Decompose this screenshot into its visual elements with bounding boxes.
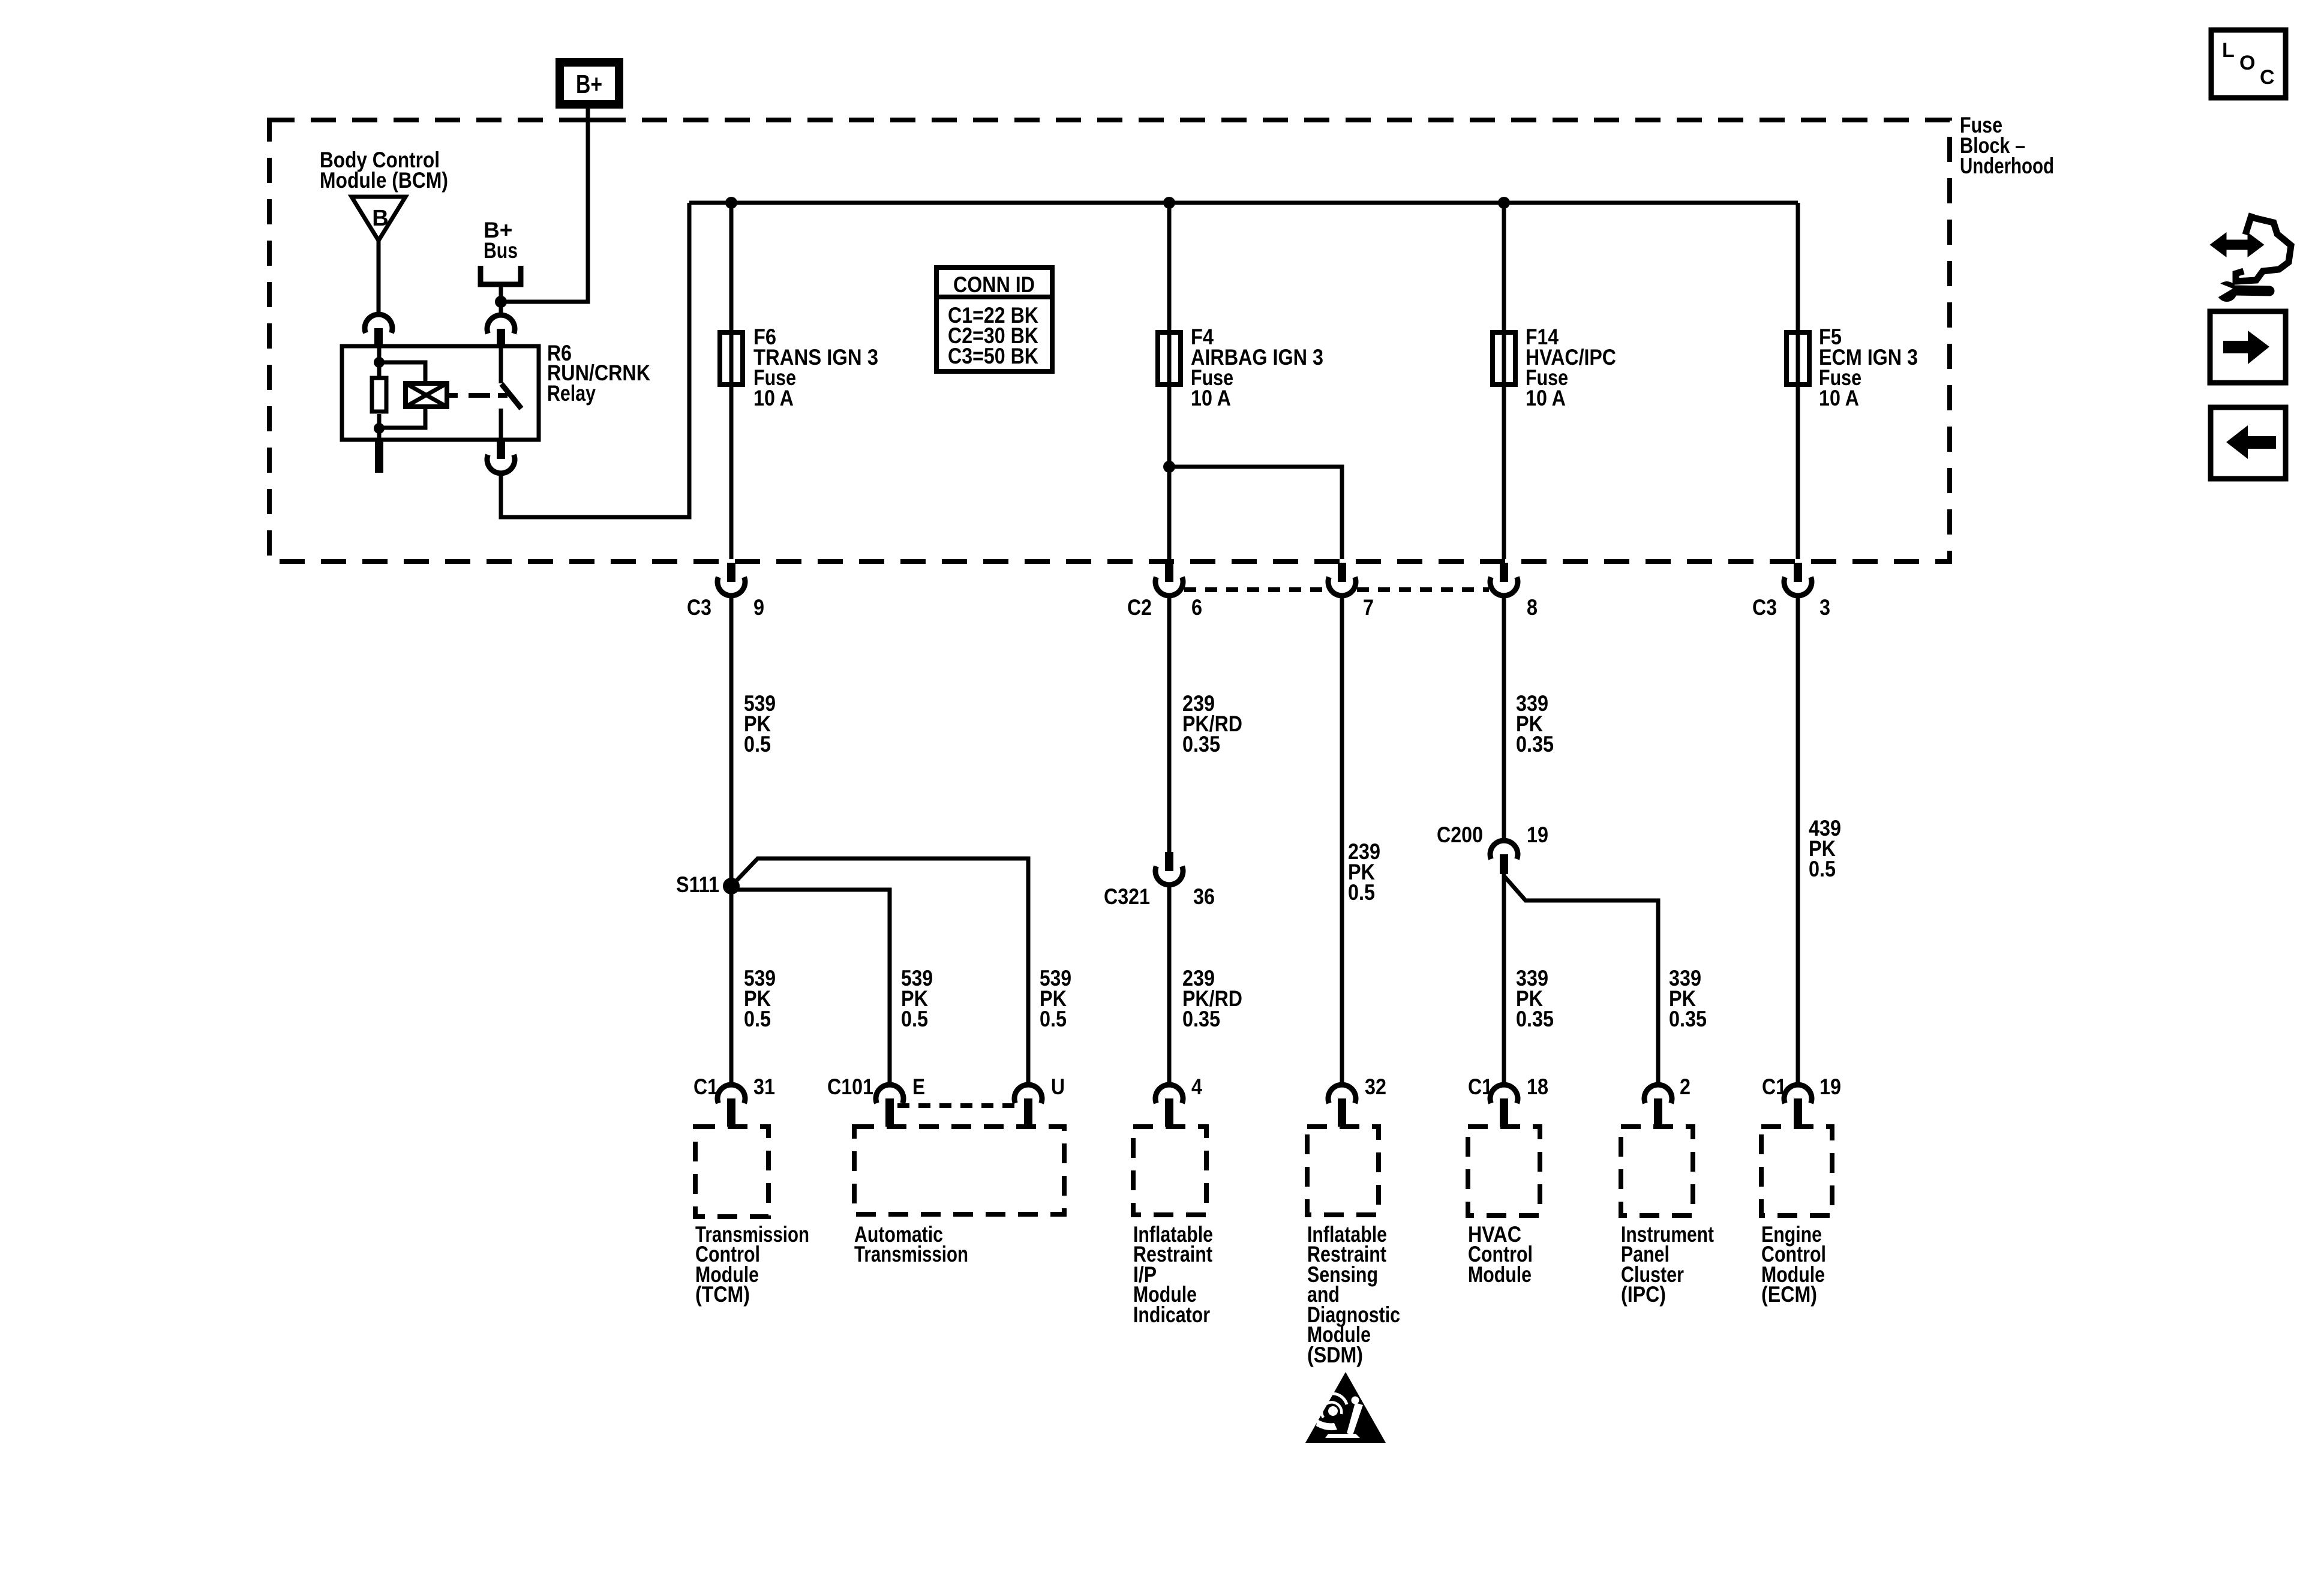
- junction dot B+ bus: [495, 296, 507, 308]
- fuse block exit pin 7: [1338, 563, 1346, 582]
- connector cup 8: [1490, 577, 1518, 596]
- wire BCM triangle to relay coil connector: [377, 241, 381, 314]
- solenoid coil loop wire: [379, 362, 425, 385]
- pin into relay (coil): [374, 328, 383, 347]
- wire bus to fuse F4: [1167, 203, 1172, 559]
- svg-text:C1: C1: [1468, 1074, 1493, 1099]
- svg-text:9: 9: [753, 595, 764, 620]
- svg-text:19: 19: [1819, 1074, 1841, 1099]
- wire C321 to pin 4: [1167, 885, 1172, 1084]
- svg-text:B+: B+: [576, 70, 602, 99]
- module box Automatic Transmission: [854, 1127, 1064, 1214]
- svg-text:10 A: 10 A: [1526, 386, 1566, 410]
- svg-text:C321: C321: [1104, 884, 1150, 909]
- stub bracket to junction: [499, 284, 503, 302]
- double arrow: [2211, 234, 2269, 302]
- SDM airbag warning triangle: [1305, 1372, 1386, 1443]
- fuse block exit pin 8: [1500, 563, 1508, 582]
- wire 439 PK to ECM: [1796, 596, 1800, 1084]
- ignition 3 bus wire: [689, 201, 1798, 205]
- dashed actuation link: [447, 393, 458, 398]
- wire bus to fuse F6: [729, 203, 734, 559]
- svg-text:7: 7: [1363, 595, 1374, 620]
- svg-text:U: U: [1051, 1074, 1065, 1099]
- svg-text:C2: C2: [1127, 595, 1152, 620]
- svg-text:Relay: Relay: [547, 381, 596, 406]
- connector cap U: [1014, 1085, 1042, 1103]
- svg-text:8: 8: [1527, 595, 1538, 620]
- wire 339 PK upper: [1502, 596, 1506, 840]
- wire junction down to switch connector: [499, 302, 503, 314]
- resistor element: [372, 378, 386, 412]
- splice S111: [723, 878, 740, 894]
- svg-text:C3: C3: [687, 595, 711, 620]
- svg-text:B: B: [372, 206, 388, 231]
- module box HVAC: [1468, 1127, 1540, 1215]
- fuse F14: [1493, 332, 1515, 385]
- svg-text:O: O: [2239, 52, 2255, 74]
- svg-text:0.5: 0.5: [744, 732, 771, 757]
- solenoid box with X: [406, 383, 447, 407]
- module box TCM: [695, 1127, 768, 1217]
- wire bus to fuse F5: [1796, 203, 1800, 559]
- connector cap C101 E: [876, 1085, 903, 1103]
- B+ Bus bracket symbol: [481, 266, 521, 284]
- svg-text:E: E: [912, 1074, 925, 1099]
- module box SDM: [1307, 1127, 1379, 1215]
- svg-text:2: 2: [1680, 1074, 1691, 1099]
- BCM triangle symbol B: [352, 197, 406, 241]
- svg-text:10 A: 10 A: [753, 386, 794, 410]
- svg-text:C3=50 BK: C3=50 BK: [948, 344, 1038, 368]
- connector cup 7: [1328, 577, 1356, 596]
- dotted connector tie line 6-7-8: [1184, 587, 1327, 592]
- svg-text:0.35: 0.35: [1516, 1007, 1554, 1031]
- svg-text:Module: Module: [1468, 1262, 1532, 1287]
- wire C200 branch to IPC: [1504, 876, 1658, 1084]
- svg-text:0.5: 0.5: [1348, 880, 1375, 905]
- svg-text:36: 36: [1193, 884, 1215, 909]
- dotted tie line E-U: [897, 1103, 1020, 1108]
- previous page arrow box: [2211, 407, 2286, 479]
- svg-text:S111: S111: [676, 872, 719, 897]
- wrench: [2217, 281, 2237, 302]
- connector half circle (coil input): [365, 314, 392, 333]
- svg-text:0.35: 0.35: [1516, 732, 1554, 757]
- svg-text:6: 6: [1191, 595, 1202, 620]
- connector cup C2 6: [1155, 577, 1183, 596]
- B+ power symbol box: [556, 58, 623, 109]
- svg-text:(ECM): (ECM): [1761, 1282, 1817, 1307]
- svg-text:0.5: 0.5: [1040, 1007, 1067, 1031]
- junction dot bus F4: [1163, 197, 1175, 209]
- fuse F6: [720, 332, 743, 385]
- svg-text:(SDM): (SDM): [1307, 1343, 1363, 1367]
- relay coil output pin (stub): [375, 440, 383, 473]
- junction dot coil bottom: [374, 423, 385, 434]
- svg-text:(IPC): (IPC): [1621, 1282, 1666, 1307]
- wire from B+ box down to B+ Bus junction: [501, 109, 588, 302]
- relay R6 box: [342, 346, 539, 440]
- connector half circle (relay output): [487, 455, 515, 473]
- svg-text:Bus: Bus: [484, 238, 518, 263]
- relay switch output pin: [497, 440, 505, 459]
- fuse F4: [1158, 332, 1181, 385]
- svg-text:0.5: 0.5: [901, 1007, 928, 1031]
- wire S111 branch to E pin: [731, 890, 890, 1084]
- svg-text:0.35: 0.35: [1182, 732, 1220, 757]
- connector half circle (switch input): [487, 315, 515, 334]
- connector cap C1 31 (TCM): [717, 1085, 745, 1103]
- fuse block exit pin C3 9: [727, 563, 735, 582]
- module box Inflatable Restraint I/P: [1133, 1127, 1206, 1215]
- svg-text:18: 18: [1527, 1074, 1548, 1099]
- Fuse Block - Underhood dashed boundary box: [269, 120, 1950, 562]
- next page arrow box: [2210, 311, 2286, 383]
- connector C200 cap: [1490, 840, 1518, 859]
- relay switch: [499, 347, 503, 383]
- CONN ID table: [936, 268, 1052, 371]
- svg-text:Transmission: Transmission: [854, 1242, 968, 1266]
- svg-text:10 A: 10 A: [1191, 386, 1231, 410]
- pin into relay (switch): [497, 329, 505, 347]
- svg-text:C101: C101: [827, 1074, 873, 1099]
- LOC reference box: [2211, 30, 2286, 98]
- connector cap 2 (IPC): [1644, 1085, 1672, 1103]
- module box ECM: [1761, 1127, 1832, 1215]
- wire 539 PK to S111 and TCM: [729, 596, 734, 1084]
- connector cup C3 9: [717, 577, 745, 596]
- connector cap 32: [1328, 1085, 1356, 1103]
- svg-text:0.5: 0.5: [1809, 857, 1836, 881]
- svg-text:0.35: 0.35: [1669, 1007, 1707, 1031]
- wire S111 branch to U pin: [731, 858, 1028, 1084]
- connector cap C1 19 (ECM): [1784, 1085, 1812, 1103]
- svg-text:31: 31: [753, 1074, 775, 1099]
- svg-text:19: 19: [1527, 822, 1548, 847]
- wire C200 to HVAC: [1502, 874, 1506, 1084]
- junction dot bus F14: [1498, 197, 1510, 209]
- wire F4 branch to pin 7: [1169, 467, 1342, 559]
- svg-text:C3: C3: [1752, 595, 1777, 620]
- svg-text:C1: C1: [693, 1074, 718, 1099]
- module box IPC: [1621, 1127, 1693, 1215]
- svg-text:L: L: [2222, 39, 2235, 62]
- connector cap C1 18 (HVAC): [1490, 1085, 1518, 1103]
- connector C200 pin: [1500, 854, 1508, 874]
- connector cap 4: [1155, 1085, 1183, 1103]
- junction dot F4 branch: [1163, 461, 1175, 473]
- svg-text:0.5: 0.5: [744, 1007, 771, 1031]
- fuse block exit pin C2 6: [1165, 563, 1173, 582]
- wire 239 PK/RD upper: [1167, 596, 1172, 852]
- wire relay output to ignition bus: [501, 203, 689, 517]
- fuse block border dash at B+ wire crossing: [573, 118, 604, 122]
- svg-text:3: 3: [1819, 595, 1830, 620]
- connector C321 pin: [1165, 852, 1173, 871]
- fuse block exit pin C3 3: [1794, 563, 1802, 582]
- wire bus to fuse F14: [1502, 203, 1506, 559]
- svg-text:C200: C200: [1437, 822, 1483, 847]
- junction dot bus F6: [725, 197, 737, 209]
- svg-text:10 A: 10 A: [1819, 386, 1859, 410]
- svg-text:CONN ID: CONN ID: [953, 272, 1035, 297]
- svg-text:0.35: 0.35: [1182, 1007, 1220, 1031]
- connector cup C3 3: [1784, 577, 1812, 596]
- svg-text:Indicator: Indicator: [1133, 1302, 1210, 1327]
- svg-text:C1: C1: [1762, 1074, 1786, 1099]
- relay coil circuit: [377, 346, 382, 378]
- svg-text:C: C: [2260, 66, 2275, 89]
- junction dot coil top: [374, 357, 385, 368]
- svg-text:Module (BCM): Module (BCM): [320, 168, 448, 193]
- fuse F5: [1786, 332, 1809, 385]
- svg-text:4: 4: [1191, 1074, 1202, 1099]
- connector C321 cup: [1155, 866, 1183, 885]
- svg-text:Underhood: Underhood: [1960, 154, 2054, 178]
- service info car icon: [2236, 214, 2291, 281]
- svg-text:(TCM): (TCM): [695, 1282, 750, 1307]
- svg-text:32: 32: [1365, 1074, 1386, 1099]
- wire 239 PK to SDM: [1340, 596, 1344, 1084]
